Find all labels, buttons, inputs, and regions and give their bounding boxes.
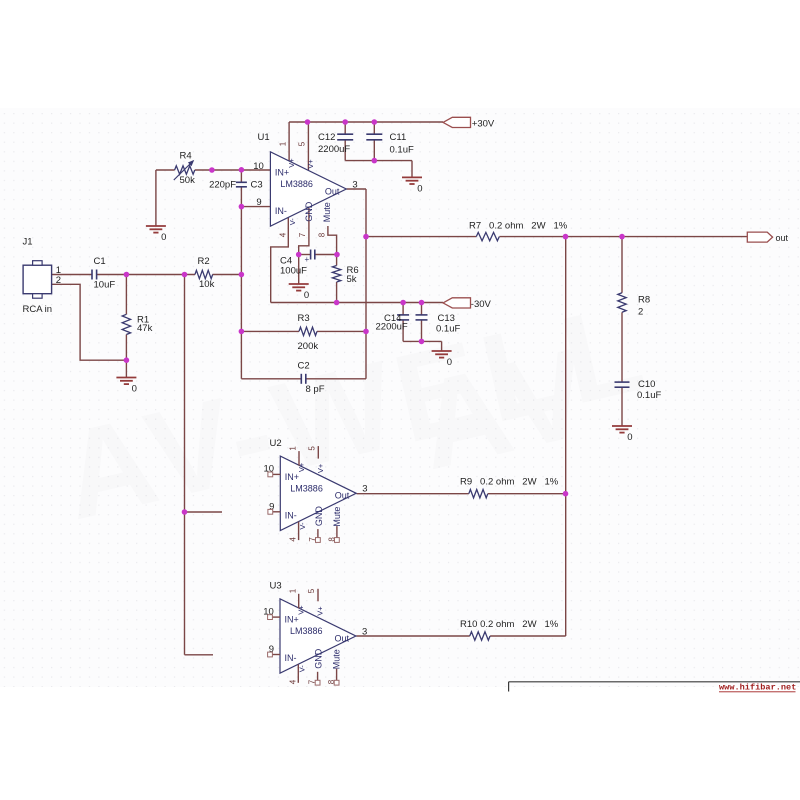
svg-text:0: 0 (447, 357, 452, 368)
svg-text:U2: U2 (270, 438, 282, 449)
wire: R6 top lead (336, 255, 338, 266)
U2 pin 4 stub (298, 522, 300, 540)
wire: C14 top lead (402, 303, 404, 315)
svg-text:C2: C2 (298, 360, 310, 371)
U3 pin 1 stub (298, 594, 300, 609)
power tag +30V (443, 117, 471, 127)
svg-text:R8: R8 (638, 295, 650, 306)
wire: R9 to right vertical (488, 493, 566, 495)
U2 pin 5 stub (317, 446, 319, 459)
wire: C1 to R2 (97, 274, 195, 276)
svg-text:Mute: Mute (332, 507, 342, 527)
power tag -30V (443, 298, 471, 308)
wire: R6 bottom lead (336, 282, 338, 303)
U3 pin 7 stub (unconnected) (317, 672, 319, 681)
svg-text:5: 5 (307, 588, 316, 593)
wire: C13 top lead (421, 303, 423, 315)
wire: C14 bottom lead (402, 320, 404, 342)
wire: C2 left lead (241, 378, 301, 380)
svg-text:3: 3 (362, 484, 367, 495)
resistor R9 (469, 490, 488, 498)
wire: R8 to C10 (621, 312, 623, 382)
wire: R8 top lead (621, 237, 623, 293)
svg-text:50k: 50k (180, 175, 196, 186)
svg-text:LM3886: LM3886 (280, 179, 313, 189)
svg-text:8: 8 (317, 232, 326, 237)
capacitor C14 (397, 314, 409, 316)
svg-text:J1: J1 (23, 237, 33, 248)
svg-text:R2: R2 (198, 256, 210, 267)
resistor R1 (122, 314, 130, 334)
svg-text:C3: C3 (251, 179, 263, 190)
ground (C10) (612, 426, 632, 443)
svg-text:GND: GND (314, 506, 324, 527)
wire: R3 right lead (317, 330, 366, 332)
svg-text:IN+: IN+ (285, 615, 299, 625)
junction (211.9,170) (209, 167, 215, 173)
svg-text:GND: GND (314, 648, 324, 669)
svg-text:200k: 200k (298, 341, 319, 352)
svg-text:100uF: 100uF (280, 265, 307, 276)
op-amp U2 (LM3886) (280, 456, 356, 530)
wire: +30V rail (289, 121, 443, 123)
svg-text:2: 2 (638, 306, 643, 317)
capacitor C12 (337, 133, 353, 135)
capacitor C13 (416, 314, 428, 316)
wire: IN- vertical (C3 bottom to C2) (240, 187, 242, 379)
capacitor C3 (236, 181, 247, 183)
svg-text:R10 0.2 ohm 2W 1%: R10 0.2 ohm 2W 1% (460, 619, 559, 630)
junction (184.5,274.5) (182, 272, 188, 278)
wire: C12/C11 bottom row (345, 160, 412, 162)
svg-text:out: out (776, 233, 789, 243)
svg-text:V+: V+ (316, 606, 325, 616)
ground (-30V caps) (432, 351, 452, 368)
svg-text:4: 4 (288, 679, 297, 684)
wire: C2 right lead (306, 378, 366, 380)
svg-text:V+: V+ (287, 158, 296, 168)
svg-text:+30V: +30V (472, 118, 495, 129)
junction (337,254.5) (334, 252, 340, 258)
svg-text:3: 3 (352, 179, 357, 190)
svg-text:GND: GND (304, 201, 314, 222)
junction (565.5,236.6) (563, 234, 569, 240)
capacitor C2 (300, 374, 302, 384)
svg-text:IN-: IN- (275, 206, 287, 216)
svg-text:C10: C10 (638, 379, 655, 390)
wire: C3 top lead (240, 170, 242, 183)
U3 pin 9 stub (unconnected) (273, 654, 281, 656)
wire: C11 top lead (373, 122, 375, 134)
wire: U1 pin7 path (299, 208, 309, 255)
wire: stub toward U2 pin9 (185, 511, 223, 513)
svg-text:C13: C13 (438, 313, 455, 324)
junction (565.5,493.7) (563, 491, 569, 497)
svg-text:10k: 10k (199, 279, 215, 290)
wire: R4 to U1 pin10 (195, 169, 271, 171)
wire: U1 pin1 stub (288, 122, 290, 161)
junction (366,331.4) (363, 329, 369, 335)
capacitor C1 (91, 270, 93, 280)
svg-text:-30V: -30V (471, 299, 492, 310)
wire: U2 out to R9 (357, 493, 469, 495)
resistor R6 (332, 265, 340, 282)
wire: supply cap ground lead (411, 161, 413, 178)
svg-text:IN+: IN+ (275, 168, 289, 178)
junction (298.7,254.5) (296, 252, 302, 258)
output tag "out" (747, 232, 772, 242)
junction (421.5,341.4) (419, 339, 425, 345)
svg-text:Out: Out (325, 186, 340, 196)
op-amp U3 (LM3886) (280, 599, 356, 673)
svg-text:V+: V+ (316, 463, 325, 473)
svg-text:Out: Out (335, 491, 350, 501)
svg-text:LM3886: LM3886 (290, 484, 323, 494)
junction (307.5,122) (305, 119, 311, 125)
wire: R1 top lead (125, 275, 127, 315)
op-amp U1 (LM3886) (270, 152, 346, 226)
svg-text:5k: 5k (347, 274, 357, 285)
resistor R3 (299, 327, 317, 335)
junction (126.4,360.2) (124, 357, 130, 363)
svg-text:V+: V+ (297, 605, 306, 615)
junction (403.1,302.5) (400, 300, 406, 306)
svg-text:2200uF: 2200uF (318, 144, 350, 155)
junction (241.4,331.4) (239, 329, 245, 335)
svg-text:0: 0 (627, 432, 632, 443)
U3 pin 10 stub (unconnected) (273, 616, 281, 618)
svg-text:4: 4 (289, 537, 298, 542)
wire: input J1 pin1 to C1 (52, 274, 92, 276)
svg-text:V+: V+ (306, 159, 315, 169)
svg-text:U3: U3 (270, 581, 282, 592)
wire: C13 bottom lead (421, 320, 423, 342)
svg-text:0: 0 (304, 290, 309, 301)
wire: right vertical (out bus) (565, 237, 567, 636)
wire: J1 pin2 down to R1 bottom (52, 284, 127, 360)
U2 pin 10 stub (unconnected) (273, 473, 281, 475)
wire: -30V cap ground lead (441, 341, 443, 351)
wire: R4 ground branch (155, 170, 157, 226)
junction (241.4,206.6) (239, 204, 245, 210)
wire: U1 pin4 path to -30V rail (271, 218, 289, 303)
svg-text:RCA in: RCA in (23, 304, 53, 315)
resistor R10 (470, 632, 490, 640)
svg-text:5: 5 (297, 141, 306, 146)
svg-text:R3: R3 (298, 313, 310, 324)
junction (345.2,122) (342, 119, 348, 125)
svg-text:R4: R4 (180, 151, 192, 162)
svg-text:9: 9 (256, 197, 261, 208)
U2 pin 9 stub (unconnected) (273, 511, 281, 513)
svg-text:0.1uF: 0.1uF (637, 390, 661, 401)
svg-text:7: 7 (298, 232, 307, 237)
wire: U1 pin8 path (328, 226, 337, 255)
svg-text:C1: C1 (94, 256, 106, 267)
resistor R2 (195, 270, 213, 278)
svg-text:IN+: IN+ (285, 472, 299, 482)
U3 pin 8 stub (unconnected) (336, 669, 338, 681)
wire: C4 left lead (299, 254, 311, 256)
svg-text:IN-: IN- (285, 653, 297, 663)
svg-text:5: 5 (307, 446, 316, 451)
wire: C4 ground lead (298, 255, 300, 285)
capacitor C10 (615, 381, 630, 383)
wire: R1 bottom lead to ground (125, 335, 127, 378)
U3 pin 4 stub (297, 664, 299, 682)
svg-text:3: 3 (362, 626, 367, 637)
svg-text:10uF: 10uF (94, 280, 116, 291)
svg-text:0: 0 (161, 232, 166, 243)
svg-text:2200uF: 2200uF (376, 322, 408, 333)
junction (241.4,169.8) (239, 167, 245, 173)
svg-text:+: + (305, 255, 310, 264)
svg-text:1: 1 (288, 588, 297, 593)
junction (622,236.6) (619, 234, 625, 240)
svg-text:0.1uF: 0.1uF (390, 144, 414, 155)
wire: C12 bottom lead (344, 140, 346, 161)
U2 pin 8 stub (unconnected) (336, 526, 338, 538)
wire: C14/C13 bottom row (403, 340, 442, 342)
svg-text:10: 10 (253, 161, 264, 172)
svg-text:Mute: Mute (332, 649, 342, 669)
wire: -30V rail (271, 302, 443, 304)
svg-text:1: 1 (279, 141, 288, 146)
wire: R3 left lead (241, 330, 299, 332)
svg-text:Out: Out (335, 633, 350, 643)
title block frame line (509, 681, 800, 683)
wire: U3 out to R10 (356, 635, 470, 637)
wire: C12 top lead (344, 122, 346, 134)
wire: U1 pin5 stub (307, 122, 309, 170)
svg-text:V-: V- (288, 218, 297, 226)
wire: long left vertical (184, 275, 186, 655)
svg-text:IN-: IN- (285, 510, 297, 520)
wire: U1 pin3 out (347, 188, 367, 190)
wire: R7 left lead (366, 236, 476, 238)
resistor R8 (618, 293, 626, 313)
U2 pin 7 stub (unconnected) (317, 529, 319, 538)
junction (336.6,302.5) (334, 300, 340, 306)
wire: R7 right to out tag (499, 236, 747, 238)
capacitor C11 (366, 133, 382, 135)
wire: C4 right lead (315, 254, 337, 256)
wire: U1 pin9 (241, 206, 271, 208)
svg-text:U1: U1 (258, 132, 270, 143)
svg-text:C11: C11 (390, 132, 407, 143)
ground (+30V caps) (402, 177, 422, 194)
ground (R1/J1) (116, 378, 136, 395)
junction (241.4,274.5) (239, 272, 245, 278)
watermark (50, 277, 661, 546)
svg-text:0: 0 (132, 384, 137, 395)
svg-text:LM3886: LM3886 (290, 626, 323, 636)
svg-text:220pF: 220pF (209, 179, 236, 190)
junction (126.4,274.5) (124, 272, 130, 278)
svg-text:0: 0 (417, 183, 422, 194)
svg-text:0.1uF: 0.1uF (436, 323, 460, 334)
junction (184.5,512) (182, 509, 188, 515)
svg-text:47k: 47k (137, 323, 153, 334)
junction (374.3,160.6) (372, 158, 378, 164)
connector J1 (RCA in) (23, 261, 51, 299)
svg-text:8 pF: 8 pF (306, 384, 325, 395)
wire: C11 bottom lead (373, 140, 375, 161)
svg-text:4: 4 (279, 232, 288, 237)
wire: stub toward U3 pin9 (185, 654, 214, 656)
capacitor C4 (100uF) (310, 250, 312, 260)
junction (421.5,302.5) (419, 300, 425, 306)
junction (374.3,122) (372, 119, 378, 125)
wire: out vertical (365, 189, 367, 379)
svg-text:C12: C12 (318, 132, 335, 143)
svg-text:Mute: Mute (322, 202, 332, 222)
U2 pin 1 stub (298, 451, 300, 466)
wire: R2 to IN- vertical (213, 274, 242, 276)
svg-text:2: 2 (56, 275, 61, 286)
ground (R4) (146, 226, 166, 243)
resistor R7 (476, 232, 499, 240)
svg-text:R9 0.2 ohm 2W 1%: R9 0.2 ohm 2W 1% (460, 476, 559, 487)
potentiometer R4 (175, 166, 195, 174)
junction (366,236.6) (363, 234, 369, 240)
svg-text:1: 1 (289, 446, 298, 451)
svg-text:R7 0.2 ohm 2W 1%: R7 0.2 ohm 2W 1% (469, 220, 568, 231)
wire: R10 to right vertical (490, 635, 566, 637)
U3 pin 5 stub (317, 589, 319, 602)
svg-text:www.hifibar.net: www.hifibar.net (719, 683, 796, 693)
ground (C4) (289, 284, 309, 301)
svg-text:V+: V+ (297, 462, 306, 472)
wire: R4 left lead (156, 169, 175, 171)
wire: C10 ground lead (621, 387, 623, 426)
